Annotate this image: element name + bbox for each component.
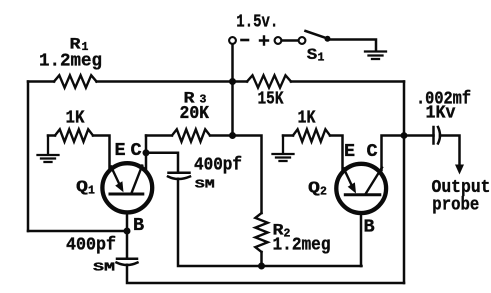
switch S1 contact <box>299 37 306 44</box>
switch S1 lever <box>306 31 328 39</box>
node center rail R3 junction <box>229 132 236 139</box>
wire R2 bottom lead <box>260 252 263 266</box>
svg-text:15K: 15K <box>258 90 284 110</box>
transistor Q1 collector stroke <box>132 166 143 193</box>
wire battery plus to switch <box>282 39 299 42</box>
svg-text:E: E <box>344 141 355 162</box>
svg-text:1K: 1K <box>66 109 85 129</box>
capacitor .002mf 1Kv <box>434 127 441 144</box>
wire Q1 base down <box>126 212 129 258</box>
capacitor 400pf SM (Q1 base coupling) <box>117 259 138 265</box>
svg-text:1K: 1K <box>298 109 316 129</box>
node battery junction on top bus <box>229 78 236 85</box>
wire center rail <box>231 82 234 136</box>
node Q1 collector tee <box>143 149 150 156</box>
svg-text:1: 1 <box>318 52 325 65</box>
wire 1K to Q2 emitter <box>330 136 343 172</box>
node R2 bottom junction <box>258 263 265 270</box>
svg-text:1.5v.: 1.5v. <box>236 12 278 32</box>
svg-text:1Kv: 1Kv <box>426 104 456 124</box>
svg-text:2: 2 <box>320 186 327 199</box>
resistor R2 1.2meg <box>255 213 267 252</box>
resistor 1K (Q1 emitter) <box>55 129 93 141</box>
node right rail output junction <box>401 132 408 139</box>
wire Q2 collector to right rail <box>382 136 405 171</box>
resistor R1 1.2meg <box>54 75 97 87</box>
transistor Q1 base bar <box>110 193 143 196</box>
svg-text:SM: SM <box>195 179 215 192</box>
wire coupling cap down and right to Q2 base node <box>178 179 362 266</box>
wire Q2 base down to base node <box>360 213 363 267</box>
battery B1 positive terminal <box>275 37 282 44</box>
battery B1 negative terminal <box>229 37 236 44</box>
svg-text:C: C <box>367 141 378 162</box>
wire right rail <box>403 82 406 284</box>
svg-text:Q: Q <box>308 179 320 197</box>
svg-text:1.2meg: 1.2meg <box>39 52 102 72</box>
wire collector tee to coupling cap <box>146 153 178 172</box>
wire 1K to Q1 emitter <box>93 136 110 171</box>
wire base cap down to bottom bus <box>127 265 404 283</box>
resistor 1K (Q2 emitter) <box>293 129 330 141</box>
wire R3 left lead down to Q1 collector <box>145 136 148 171</box>
ground (switch) <box>365 52 386 60</box>
svg-text:1: 1 <box>88 185 95 198</box>
svg-text:B: B <box>364 217 375 238</box>
switch S1 pivot <box>325 36 331 42</box>
wire battery minus down to top bus <box>231 44 234 81</box>
wire ground to 1K <box>48 134 55 137</box>
transistor Q2 emitter stroke <box>344 169 353 188</box>
svg-text:Q: Q <box>76 178 88 196</box>
transistor Q1 emitter arrowhead <box>115 181 123 192</box>
svg-text:20K: 20K <box>180 104 210 124</box>
ground (Q1 emitter resistor) <box>38 136 59 163</box>
battery plus sign <box>260 37 268 45</box>
resistor R3 20K <box>146 129 233 141</box>
wire top bus right segment <box>291 80 404 83</box>
svg-text:1.2meg: 1.2meg <box>273 236 331 256</box>
ground (Q2 emitter resistor) <box>273 136 294 162</box>
transistor Q1 emitter stroke <box>111 167 120 186</box>
svg-text:B: B <box>133 215 144 236</box>
battery minus sign <box>242 39 249 42</box>
wire top bus middle segment <box>97 80 248 83</box>
capacitor 400pf SM (Q1 collector coupling) <box>168 173 190 179</box>
svg-text:C: C <box>131 140 142 161</box>
svg-text:S: S <box>307 46 318 64</box>
transistor Q2 <box>336 164 386 213</box>
wire switch to ground <box>330 40 376 52</box>
wire left rail to Q1 base <box>28 230 127 233</box>
wire R2 top lead <box>233 136 262 214</box>
transistor Q2 emitter arrowhead <box>348 182 356 193</box>
svg-text:E: E <box>115 140 126 161</box>
resistor 15K <box>247 75 291 87</box>
svg-text:400pf: 400pf <box>194 156 242 176</box>
svg-text:probe: probe <box>432 196 479 216</box>
wire top bus left segment <box>28 80 54 83</box>
transistor Q1 <box>102 163 152 212</box>
svg-text:SM: SM <box>93 262 115 275</box>
transistor Q2 base bar <box>345 193 380 196</box>
node Q1 base junction <box>124 228 131 235</box>
svg-text:400pf: 400pf <box>66 236 116 256</box>
wire cap to output probe <box>440 136 460 167</box>
transistor Q2 collector stroke <box>366 168 383 195</box>
wire ground to Q2 1K <box>283 134 293 137</box>
wire output junction to coupling cap <box>404 134 434 137</box>
wire left rail <box>27 82 30 232</box>
output probe arrowhead <box>455 165 464 175</box>
